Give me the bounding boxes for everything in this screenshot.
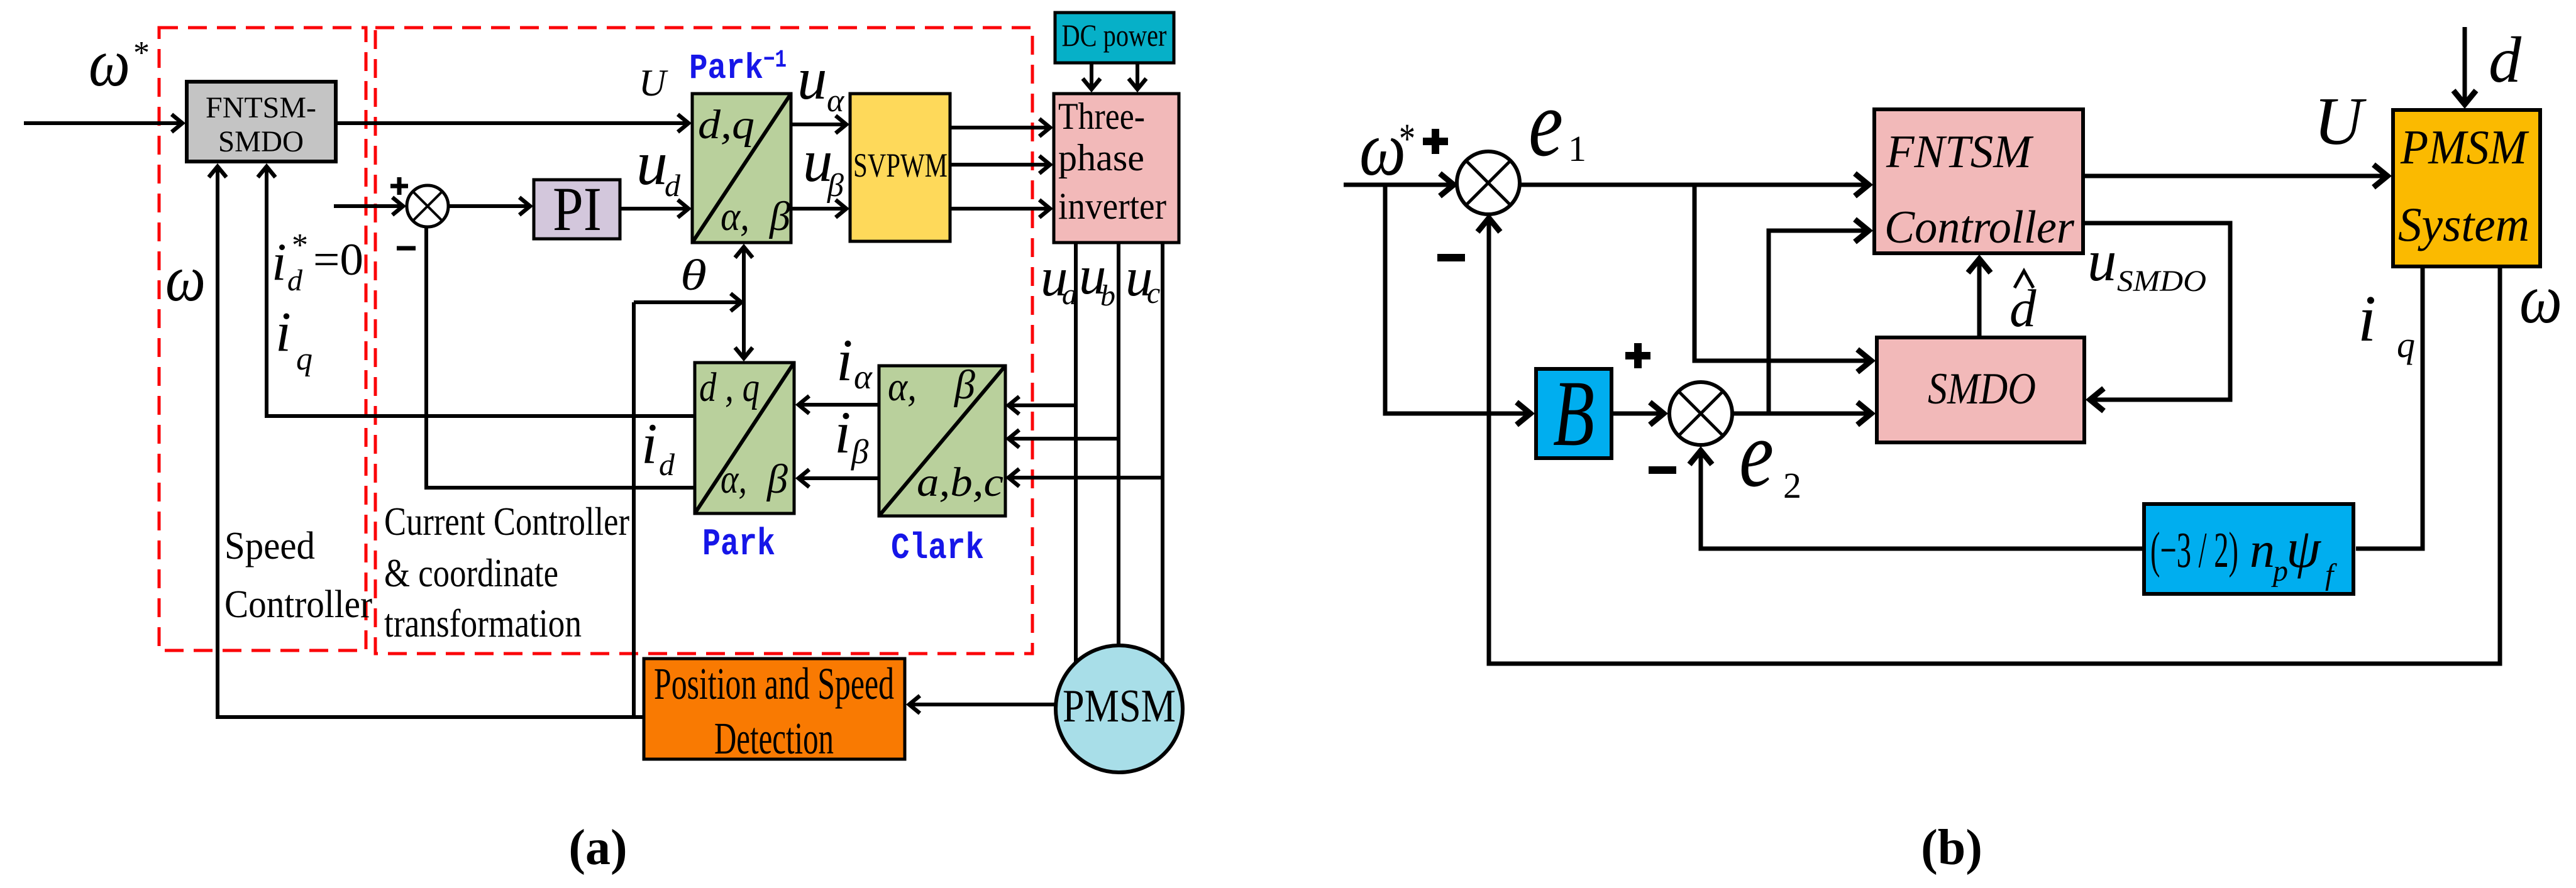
svg-text:phase: phase [1058, 137, 1144, 178]
svg-text:inverter: inverter [1058, 185, 1166, 227]
svg-text:System: System [2398, 197, 2529, 251]
svg-text:a,b,c: a,b,c [917, 459, 1003, 505]
svg-text:PI: PI [553, 174, 602, 244]
svg-text:(a): (a) [568, 820, 627, 875]
svg-text:*: * [133, 35, 150, 71]
svg-text:β: β [851, 432, 869, 471]
svg-text:SMDO: SMDO [2117, 265, 2206, 298]
svg-text:d: d [659, 447, 675, 482]
svg-text:U: U [639, 62, 668, 104]
svg-text:(−3 / 2): (−3 / 2) [2150, 523, 2238, 578]
svg-text:=0: =0 [313, 234, 363, 285]
svg-text:Park: Park [689, 49, 763, 89]
svg-text:α,: α, [721, 194, 749, 239]
svg-text:Position and Speed: Position and Speed [654, 659, 894, 709]
svg-text:α: α [827, 83, 845, 119]
svg-text:b: b [1100, 279, 1115, 312]
svg-text:β: β [768, 194, 790, 239]
svg-text:n: n [2250, 523, 2275, 578]
svg-text:d: d [2489, 24, 2522, 96]
svg-text:Controller: Controller [224, 583, 372, 626]
svg-text:ω: ω [2519, 260, 2562, 338]
svg-text:q: q [2397, 324, 2415, 365]
svg-text:u: u [636, 128, 668, 198]
svg-text:i: i [272, 233, 287, 292]
svg-text:PMSM: PMSM [1063, 681, 1176, 732]
svg-text:β: β [953, 362, 975, 408]
svg-text:Controller: Controller [1884, 202, 2075, 253]
svg-text:(b): (b) [1921, 820, 1982, 875]
svg-text:SMDO: SMDO [218, 125, 304, 158]
svg-text:i: i [834, 399, 851, 466]
svg-text:DC power: DC power [1062, 18, 1167, 53]
svg-text:d: d [665, 168, 681, 203]
svg-text:Detection: Detection [714, 713, 834, 764]
svg-text:β: β [766, 456, 788, 502]
svg-text:α,: α, [721, 456, 747, 502]
svg-text:ω: ω [165, 241, 206, 315]
svg-text:PMSM: PMSM [2400, 120, 2529, 174]
svg-text:Clark: Clark [891, 529, 984, 569]
svg-text:Park: Park [702, 523, 775, 566]
svg-text:ω: ω [89, 26, 130, 101]
svg-text:SMDO: SMDO [1928, 365, 2036, 414]
svg-text:d: d [287, 264, 303, 297]
svg-text:2: 2 [1783, 465, 1801, 506]
svg-text:α: α [854, 358, 873, 396]
svg-text:d , q: d , q [699, 365, 760, 410]
svg-text:U: U [2314, 84, 2367, 159]
svg-text:i: i [275, 301, 291, 363]
svg-text:i: i [2358, 282, 2376, 355]
svg-text:u: u [797, 45, 827, 112]
svg-text:Three-: Three- [1058, 96, 1145, 137]
svg-text:u: u [2087, 229, 2117, 293]
svg-text:transformation: transformation [384, 601, 582, 645]
svg-text:a: a [1062, 278, 1077, 311]
svg-text:p: p [2271, 554, 2288, 588]
svg-text:ψ: ψ [2286, 518, 2321, 579]
svg-text:& coordinate: & coordinate [384, 551, 558, 595]
svg-text:e: e [1739, 401, 1774, 507]
svg-text:c: c [1147, 277, 1160, 310]
svg-text:α,: α, [888, 364, 917, 410]
svg-text:i: i [836, 327, 853, 393]
svg-text:FNTSM: FNTSM [1886, 126, 2034, 178]
svg-text:i: i [641, 412, 658, 476]
svg-text:d,q: d,q [698, 102, 755, 148]
svg-text:e: e [1528, 70, 1563, 176]
svg-text:FNTSM-: FNTSM- [206, 91, 316, 124]
svg-text:*: * [292, 227, 308, 263]
svg-text:β: β [827, 168, 844, 204]
svg-text:q: q [296, 341, 312, 377]
svg-text:1: 1 [1568, 128, 1586, 169]
svg-text:*: * [1399, 114, 1415, 162]
svg-text:B: B [1553, 361, 1595, 466]
svg-text:SVPWM: SVPWM [853, 146, 948, 184]
svg-text:−1: −1 [763, 47, 787, 75]
svg-text:θ: θ [680, 251, 707, 300]
svg-text:Speed: Speed [224, 525, 315, 567]
svg-text:Current Controller: Current Controller [384, 499, 629, 544]
